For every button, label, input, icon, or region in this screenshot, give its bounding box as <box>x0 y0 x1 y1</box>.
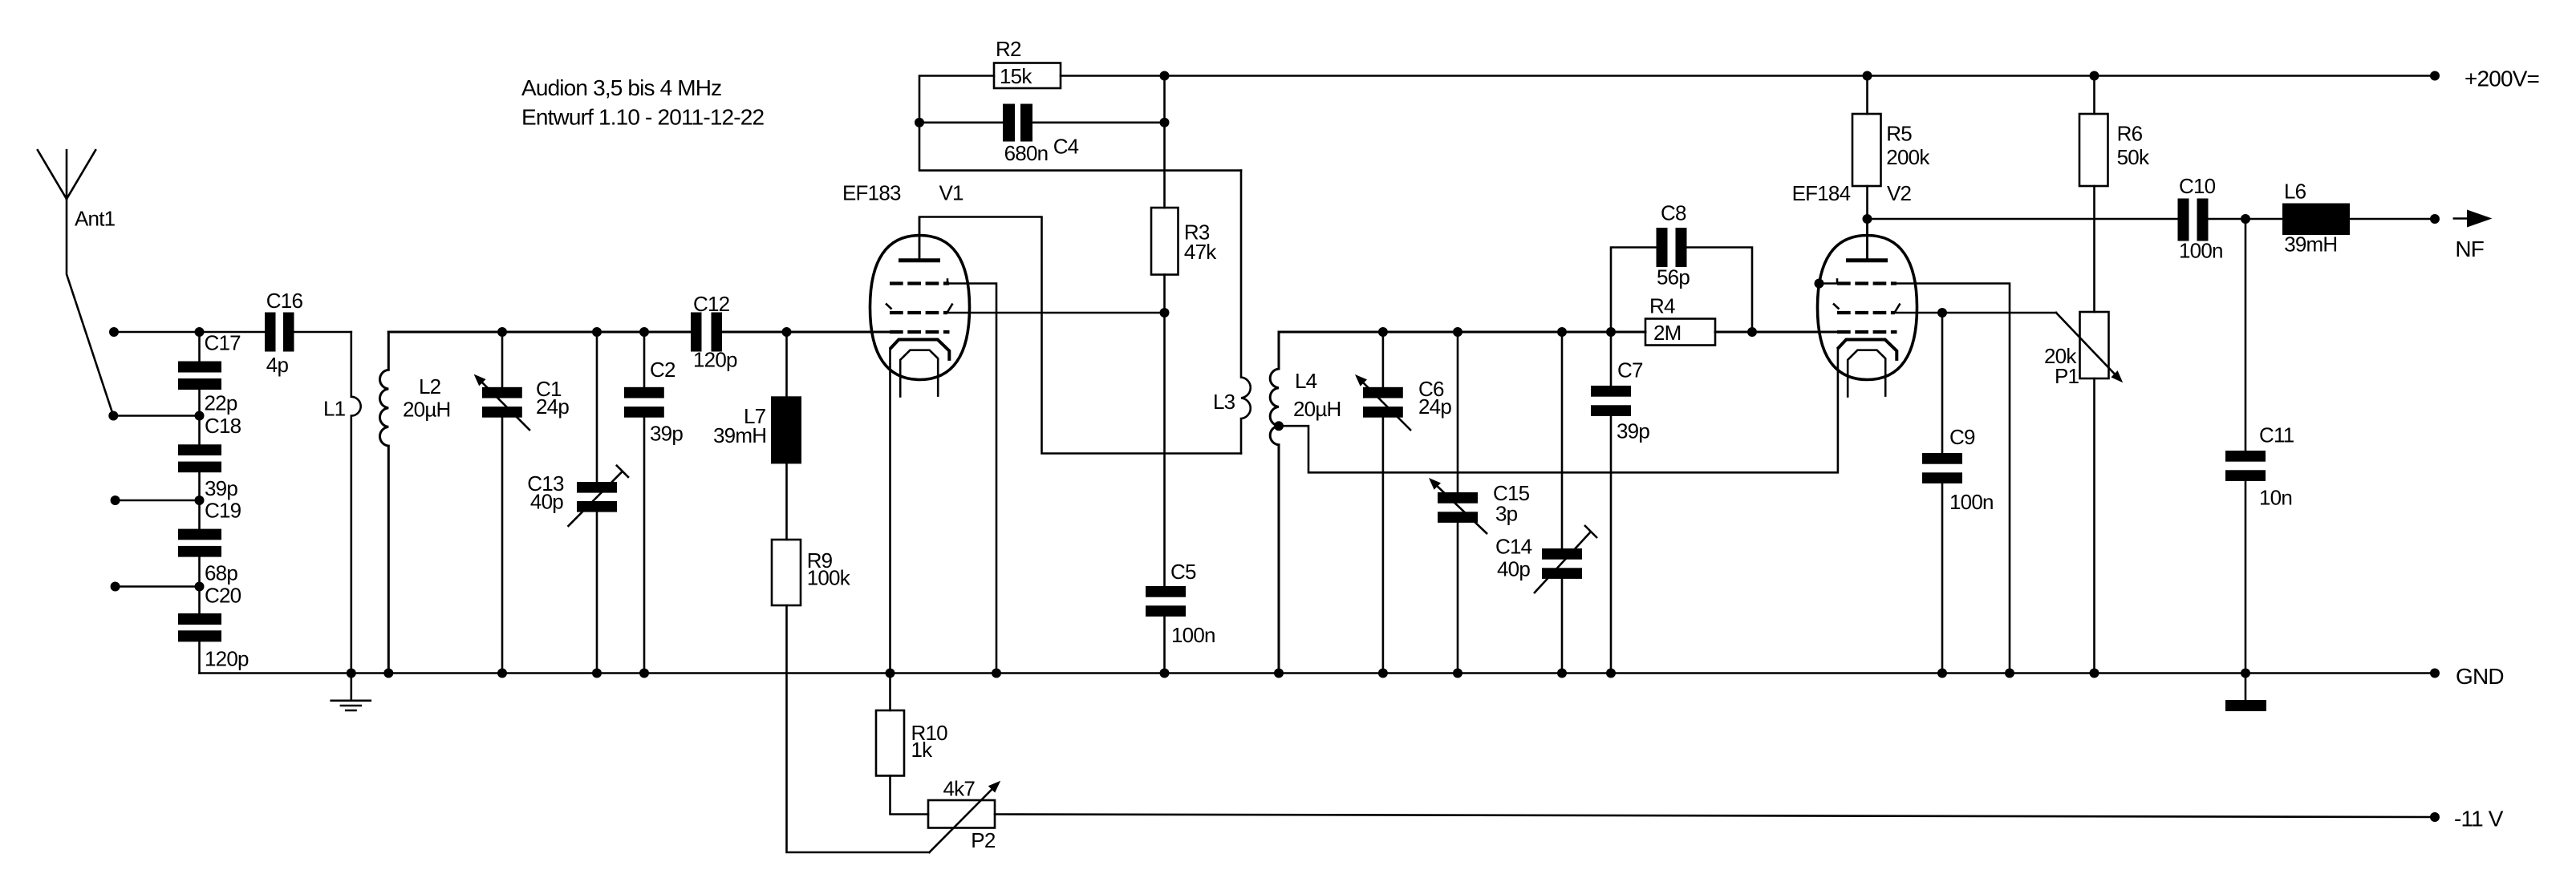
capacitor C4 plates <box>1003 104 1015 142</box>
junction dot g2 R3 <box>1160 308 1170 318</box>
junction dot C2 bus <box>639 327 649 337</box>
junction dot C11 gnd <box>2241 669 2250 678</box>
wire C13 leg <box>596 332 598 674</box>
svg-text:22p: 22p <box>205 391 237 415</box>
tube V1 EF183 <box>870 217 970 398</box>
svg-text:C19: C19 <box>205 499 241 523</box>
arrowhead C6 <box>1355 374 1367 386</box>
junction dot chain top <box>195 327 205 337</box>
svg-text:40p: 40p <box>530 490 563 514</box>
arrowhead C1 <box>474 374 486 386</box>
junction dot L4 tap <box>1274 421 1284 431</box>
svg-text:L3: L3 <box>1213 390 1235 414</box>
wire R2 C4 left branch <box>919 76 1241 171</box>
antenna Ant1 <box>38 150 113 415</box>
wire C6 leg <box>1382 332 1385 674</box>
wire C14 leg <box>1561 332 1564 674</box>
svg-text:20µH: 20µH <box>403 398 451 422</box>
capacitor C20 plates <box>178 613 221 625</box>
arrowhead C15 <box>1429 478 1441 490</box>
capacitor C10 plates <box>2178 199 2189 241</box>
resistor R5 <box>1852 114 1881 186</box>
wire C8 loop <box>1611 248 1752 333</box>
svg-text:50k: 50k <box>2117 145 2150 169</box>
wire V1 cathode to ground and R10 <box>890 349 929 814</box>
junction dot chain tap2 <box>195 411 205 421</box>
svg-text:C4: C4 <box>1053 135 1079 159</box>
svg-text:4p: 4p <box>266 353 289 377</box>
terminal dot GND <box>2430 669 2440 678</box>
svg-text:2M: 2M <box>1653 321 1681 345</box>
variable capacitor C1 arrow <box>480 380 530 431</box>
resistor R9 <box>772 540 801 605</box>
wire bus C16 left <box>200 331 266 334</box>
wire C1 leg <box>501 332 504 674</box>
svg-text:20µH: 20µH <box>1293 397 1341 421</box>
svg-text:C12: C12 <box>693 292 730 316</box>
junction dot R2 +200V <box>1160 71 1170 81</box>
svg-text:Ant1: Ant1 <box>75 207 116 231</box>
svg-text:C2: C2 <box>650 358 675 382</box>
svg-text:P1: P1 <box>2055 364 2079 388</box>
potentiometer P1 body <box>2080 312 2109 378</box>
svg-text:R6: R6 <box>2117 122 2143 146</box>
inductor L1 link winding <box>351 332 361 701</box>
capacitor C7 plates <box>1591 386 1631 397</box>
svg-text:15k: 15k <box>1000 64 1032 88</box>
wire GND rail <box>200 672 2436 674</box>
wire stub tap2 <box>113 415 199 417</box>
junction dot V2 g2 C9 <box>1937 308 1947 318</box>
wire C10 to L6 <box>2209 218 2436 220</box>
junction dot C13 gnd <box>592 669 602 678</box>
junction dot L1 gnd <box>347 669 356 678</box>
wire stub tap4 <box>116 585 200 588</box>
junction dot C7 C8 bus <box>1606 327 1616 337</box>
wire C4 right to R3 branch <box>1032 76 1165 674</box>
svg-text:4k7: 4k7 <box>943 777 976 801</box>
terminal dot +200V <box>2430 71 2440 81</box>
inductor L4 <box>1270 332 1279 674</box>
svg-text:68p: 68p <box>205 561 237 585</box>
resistor R2 <box>994 63 1061 89</box>
junction dot C15 bus <box>1453 327 1462 337</box>
wire L4 tap to V2 cathode <box>1279 349 1838 472</box>
junction dot V2 g3 gnd <box>2005 669 2014 678</box>
junction dot C12 L7 bus <box>782 327 792 337</box>
inductor L7 choke body <box>771 396 801 463</box>
resistor R3 <box>1151 208 1178 275</box>
wire stub tap3 <box>116 500 200 502</box>
inductor L2 <box>379 332 388 674</box>
svg-text:EF184: EF184 <box>1792 181 1851 205</box>
capacitor C19 plates <box>178 529 221 540</box>
ground symbol <box>331 701 371 710</box>
junction dot C15 gnd <box>1453 669 1462 678</box>
wire V2 anode to C10 <box>1868 218 2178 220</box>
junction dot C13 bus <box>592 327 602 337</box>
junction dot tap4 left <box>111 582 120 592</box>
svg-text:100k: 100k <box>807 565 851 589</box>
potentiometer P2 body <box>928 800 995 828</box>
svg-text:200k: 200k <box>1886 145 1930 169</box>
svg-text:V1: V1 <box>939 180 964 204</box>
svg-text:P2: P2 <box>971 828 996 852</box>
svg-text:10n: 10n <box>2259 486 2292 510</box>
svg-text:39p: 39p <box>650 422 683 446</box>
svg-text:100n: 100n <box>2179 239 2223 263</box>
terminal dot -11V <box>2430 812 2440 822</box>
capacitor C17 plates <box>178 362 221 373</box>
svg-text:Audion 3,5 bis 4 MHz: Audion 3,5 bis 4 MHz <box>521 75 721 100</box>
svg-text:C20: C20 <box>205 583 241 607</box>
svg-text:56p: 56p <box>1657 265 1690 289</box>
NF output arrowhead <box>2467 210 2493 228</box>
svg-text:120p: 120p <box>693 347 737 371</box>
wire main bus stage2 <box>1279 331 1837 334</box>
svg-text:39mH: 39mH <box>2284 232 2337 256</box>
wire C16 to L1 <box>294 331 351 334</box>
wire R5 branch anode V2 <box>1866 76 1868 259</box>
resistor R4 <box>1645 319 1715 346</box>
junction dot P1 gnd <box>2090 669 2099 678</box>
junction dot chain tap4 <box>195 582 205 592</box>
svg-text:+200V=: +200V= <box>2464 66 2539 91</box>
junction dot C9 gnd <box>1937 669 1947 678</box>
arrowhead P2 <box>988 781 1000 793</box>
svg-text:39p: 39p <box>205 476 237 500</box>
junction dot L2 gnd <box>383 669 393 678</box>
junction dot C1 gnd <box>497 669 507 678</box>
junction dot cathode R10 gnd <box>886 669 895 678</box>
capacitor C9 plates <box>1922 453 1962 464</box>
junction dot V2 anode <box>1863 214 1872 224</box>
svg-text:C18: C18 <box>205 414 241 438</box>
capacitor C1 plates <box>482 387 522 398</box>
junction dot R4 C8 bus <box>1747 327 1757 337</box>
junction dot C2 gnd <box>639 669 649 678</box>
svg-text:C7: C7 <box>1617 358 1643 382</box>
resistor R6 <box>2079 114 2108 186</box>
svg-text:R4: R4 <box>1649 294 1675 318</box>
junction dot C6 bus <box>1378 327 1388 337</box>
svg-text:40p: 40p <box>1497 557 1530 581</box>
svg-text:C8: C8 <box>1661 201 1686 225</box>
capacitor C11 plates <box>2225 451 2266 462</box>
capacitor C5 plates <box>1146 586 1186 597</box>
svg-text:NF: NF <box>2455 237 2484 261</box>
svg-text:EF183: EF183 <box>842 180 901 204</box>
svg-text:R5: R5 <box>1886 122 1912 146</box>
svg-text:C14: C14 <box>1495 535 1532 559</box>
svg-text:-11 V: -11 V <box>2454 806 2504 831</box>
svg-text:C17: C17 <box>205 331 241 355</box>
capacitor C8 plates <box>1657 228 1668 267</box>
junction dot C7 gnd <box>1606 669 1616 678</box>
svg-text:C11: C11 <box>2259 423 2294 447</box>
svg-text:39mH: 39mH <box>713 423 766 447</box>
wire P2 to -11V rail <box>995 815 2435 818</box>
resistor R10 <box>876 710 904 776</box>
wire V1 anode to L3 <box>919 217 1241 454</box>
wire R6 P1 branch <box>2093 76 2095 674</box>
svg-text:R2: R2 <box>996 37 1021 61</box>
wire C15 leg <box>1457 332 1459 674</box>
output arrow NF <box>2454 217 2467 220</box>
inductor L6 choke body <box>2282 204 2350 236</box>
wire C11 leg <box>2245 219 2247 700</box>
svg-text:120p: 120p <box>205 646 249 670</box>
wire C2 leg <box>643 332 646 674</box>
junction dot tap1 left <box>109 327 119 337</box>
wire +200V rail <box>1165 75 2436 77</box>
svg-text:C9: C9 <box>1949 425 1975 449</box>
junction dot antenna tap2 left <box>108 411 118 421</box>
svg-text:100n: 100n <box>1171 623 1215 647</box>
junction dot R6 +200V <box>2090 71 2099 81</box>
junction dot tap3 left <box>111 496 120 505</box>
junction dot V2 g3 envelope <box>1815 279 1824 289</box>
wire V2 g3 to ground <box>1897 284 2010 674</box>
svg-text:3p: 3p <box>1495 502 1518 526</box>
capacitor C12 plates <box>691 313 702 352</box>
svg-text:680n: 680n <box>1004 141 1049 165</box>
capacitor C14 plates <box>1542 548 1582 560</box>
wire C7 leg <box>1610 332 1613 674</box>
chassis ground bar <box>2225 700 2266 711</box>
wire V2 g2 to P1 wiper <box>1895 312 2056 314</box>
trimmer C14 diagonal <box>1534 525 1597 593</box>
junction dot C1 bus <box>497 327 507 337</box>
svg-text:V2: V2 <box>1887 181 1912 205</box>
junction dot C5 gnd <box>1160 669 1170 678</box>
junction dot g3 gnd <box>992 669 1001 678</box>
svg-text:L1: L1 <box>323 397 346 421</box>
tube V2 EF184 <box>1818 219 1917 398</box>
capacitor C6 plates <box>1363 387 1403 398</box>
junction dot C14 gnd <box>1557 669 1567 678</box>
terminal dot NF <box>2430 214 2440 224</box>
potentiometer P1 wiper arrow <box>2056 313 2120 378</box>
junction dot C14 bus <box>1557 327 1567 337</box>
wire V1 g2 to R3 <box>947 312 1165 314</box>
variable capacitor C15 arrow <box>1434 483 1487 534</box>
svg-text:C16: C16 <box>266 289 303 313</box>
wire C12 to V1 grid <box>722 331 890 334</box>
svg-text:1k: 1k <box>911 738 934 762</box>
svg-text:100n: 100n <box>1949 490 1994 514</box>
capacitor C2 plates <box>624 387 664 398</box>
junction dot C4 right <box>1160 118 1170 127</box>
svg-text:L6: L6 <box>2284 180 2306 204</box>
junction dot C4 left <box>915 118 924 127</box>
junction dot R5 +200V <box>1863 71 1872 81</box>
wire L7 R9 leg <box>787 332 930 852</box>
capacitor C13 plates <box>577 482 617 493</box>
inductor L3 feedback coil <box>1241 171 1251 454</box>
junction dot C10 C11 <box>2241 214 2250 224</box>
capacitor C18 plates <box>178 444 221 455</box>
junction dot C6 gnd <box>1378 669 1388 678</box>
wire C9 leg <box>1941 313 1944 674</box>
svg-text:GND: GND <box>2456 664 2504 689</box>
wire V1 g3 to ground <box>947 284 996 674</box>
svg-text:39p: 39p <box>1617 419 1649 443</box>
svg-text:24p: 24p <box>1418 394 1451 419</box>
svg-text:C10: C10 <box>2179 174 2216 198</box>
potentiometer P2 wiper arrow <box>929 785 996 852</box>
variable capacitor C6 arrow <box>1361 380 1411 431</box>
svg-text:Entwurf 1.10 - 2011-12-22: Entwurf 1.10 - 2011-12-22 <box>521 105 764 130</box>
wire V2 g3 left to envelope dot <box>1819 282 1838 285</box>
wire main bus L2 to C12 <box>388 331 691 334</box>
wire stub tap1 <box>114 331 200 334</box>
capacitor C16 plates <box>265 313 276 352</box>
junction dot chain tap3 <box>195 496 205 505</box>
wire capacitor-chain vertical <box>198 332 201 674</box>
svg-text:L4: L4 <box>1295 369 1317 393</box>
trimmer C13 diagonal <box>568 465 629 527</box>
junction dot L4 gnd <box>1274 669 1284 678</box>
svg-text:47k: 47k <box>1184 240 1217 264</box>
svg-text:C5: C5 <box>1170 560 1196 584</box>
svg-text:L2: L2 <box>419 374 441 398</box>
capacitor C15 plates <box>1438 492 1478 504</box>
svg-text:24p: 24p <box>536 394 569 419</box>
arrowhead P1 <box>2111 370 2123 382</box>
